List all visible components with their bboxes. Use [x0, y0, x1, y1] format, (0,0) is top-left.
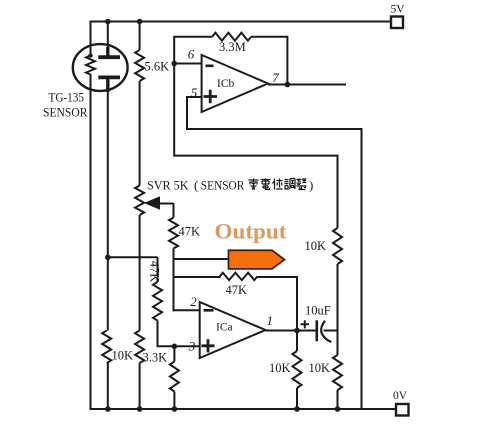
resistor 47K wiper	[169, 218, 178, 249]
svg-text:5V: 5V	[390, 4, 405, 16]
wire 3.3K to rail	[139, 363, 141, 409]
wire divider pot to 3.3K	[139, 215, 141, 331]
wire 47K-rot top lead	[157, 257, 159, 282]
label CJK position	[273, 179, 283, 190]
wire ICa output	[266, 330, 318, 332]
resistor 10K upper	[333, 228, 342, 264]
label CJK adjust1	[285, 179, 296, 190]
op-amp ICa plus	[202, 339, 215, 352]
capacitor 10uF curved plate	[321, 321, 331, 342]
wire 10K mid top lead	[296, 331, 298, 352]
node plate line tap junction	[105, 254, 111, 260]
node ICb output junction	[285, 82, 291, 88]
wire plate line above sensor	[107, 22, 109, 51]
wire cap to 10K column	[324, 330, 338, 332]
wire pin6 vertical	[173, 37, 175, 157]
svg-text:ICb: ICb	[217, 78, 235, 90]
capacitor 10uF plus plate	[315, 320, 318, 341]
svg-text:2: 2	[190, 294, 197, 309]
sensor top plate bar	[98, 55, 120, 59]
resistor 10K mid	[293, 351, 302, 388]
wire pin6 column horizontal	[174, 155, 337, 157]
svg-text:10uF: 10uF	[305, 304, 331, 318]
svg-text:SENSOR: SENSOR	[43, 105, 88, 120]
svg-text:SENSOR: SENSOR	[201, 178, 245, 193]
resistor 3.3M	[212, 33, 251, 41]
resistor 5.6K	[135, 50, 144, 81]
svg-text:3: 3	[188, 339, 196, 354]
wire tap horizontal	[108, 256, 158, 258]
resistor 3.3K	[135, 331, 144, 364]
svg-text:): )	[309, 178, 313, 193]
wire ICb output	[268, 84, 346, 86]
svg-text:1: 1	[267, 313, 274, 328]
wire 10K lower bottom lead	[337, 390, 339, 409]
wire 10K upper to cap node	[337, 264, 339, 332]
wire 47K feedback left	[174, 276, 221, 278]
resistor 10K lower	[333, 355, 342, 390]
wire pin2 horizontal	[173, 309, 200, 311]
terminal 5V square	[391, 17, 403, 29]
terminal 0V square	[396, 404, 409, 416]
capacitor plus sign	[301, 320, 310, 328]
svg-text:ICa: ICa	[216, 322, 233, 334]
wire wiper corner down to 47K	[173, 203, 175, 218]
svg-text:6: 6	[188, 47, 195, 62]
node ICa output junction	[294, 328, 300, 334]
svg-text:TG-135: TG-135	[49, 90, 85, 105]
wire 3.3M right lead + down	[251, 37, 287, 85]
node 10K lower rail junction	[335, 406, 341, 412]
wire divider above 5.6K	[139, 22, 141, 51]
svg-text:3.3M: 3.3M	[219, 40, 246, 54]
svg-text:10K: 10K	[305, 239, 327, 253]
node 10K mid rail junction	[294, 406, 300, 412]
label CJK zero	[249, 179, 259, 190]
sensor TG-135 envelope circle	[73, 44, 128, 91]
svg-text:47K: 47K	[179, 225, 201, 239]
wire bottom 0V rail	[91, 408, 396, 410]
svg-text:10K: 10K	[112, 349, 134, 363]
node pin3 resistor rail junction	[172, 406, 178, 412]
node pin3 junction	[172, 344, 178, 350]
wire 47K feedback right + down	[258, 277, 298, 331]
wire output stub	[174, 258, 233, 260]
wire pin2 branch vertical	[173, 249, 175, 312]
resistor sensor heater	[86, 56, 95, 75]
svg-text:3.3K: 3.3K	[143, 351, 168, 365]
sensor bottom plate bar	[98, 76, 120, 80]
wire pin6 horizontal	[174, 63, 201, 65]
op-amp ICa minus	[204, 309, 214, 312]
op-amp ICb triangle	[202, 55, 268, 112]
svg-text:47K: 47K	[147, 261, 161, 283]
potentiometer SVR 5K element	[135, 186, 144, 216]
node 10K left bottom rail junction	[105, 406, 111, 412]
resistor unlabeled pin3	[170, 362, 179, 392]
svg-text:Output: Output	[215, 219, 288, 244]
wire pin3 resistor bottom lead	[173, 392, 175, 410]
wire left vertical upper (5V to heater)	[90, 21, 92, 56]
resistor 10K left	[102, 331, 111, 364]
wire pin5 loop	[187, 97, 362, 410]
svg-text:SVR 5K: SVR 5K	[147, 178, 189, 193]
potentiometer wiper arrow	[144, 196, 160, 209]
svg-text:47K: 47K	[226, 283, 248, 297]
wire pin3 resistor top lead	[173, 346, 175, 361]
svg-text:10K: 10K	[269, 361, 291, 375]
svg-text:7: 7	[272, 70, 279, 85]
sensor top plate stem	[106, 47, 109, 56]
label CJK electric	[261, 179, 271, 190]
wire 10K lower top lead	[337, 331, 339, 356]
svg-text:5.6K: 5.6K	[145, 60, 170, 74]
wire left vertical lower (heater to 0V)	[90, 74, 92, 410]
wire 3.3M left lead	[173, 36, 212, 38]
wire 10K left to rail	[107, 363, 109, 409]
node divider top rail junction	[137, 19, 143, 25]
label CJK adjust2	[297, 179, 307, 190]
wire divider 5.6K to pot	[139, 81, 141, 186]
resistor 47K rotated	[153, 282, 162, 321]
resistor 47K feedback	[220, 273, 258, 280]
op-amp ICb minus	[206, 65, 214, 68]
wire wiper to corner	[158, 203, 174, 205]
output arrow symbol	[229, 250, 285, 269]
wire 10K mid bottom lead	[296, 388, 298, 409]
wire top 5V rail	[91, 21, 391, 23]
op-amp ICa triangle	[200, 302, 266, 358]
svg-text:10K: 10K	[309, 361, 331, 375]
node pin6 junction	[171, 61, 177, 67]
svg-text:(: (	[194, 178, 198, 193]
wire 10K upper top lead	[337, 155, 339, 228]
node 3.3K bottom rail junction	[137, 406, 143, 412]
svg-text:0V: 0V	[393, 390, 408, 402]
wire plate line below sensor	[107, 90, 109, 331]
node plate line top rail junction	[105, 19, 111, 25]
node heater top	[88, 53, 92, 57]
sensor bottom plate stem	[106, 79, 109, 93]
wire 47K-rot bottom lead	[158, 321, 200, 347]
op-amp ICb plus	[204, 90, 218, 103]
